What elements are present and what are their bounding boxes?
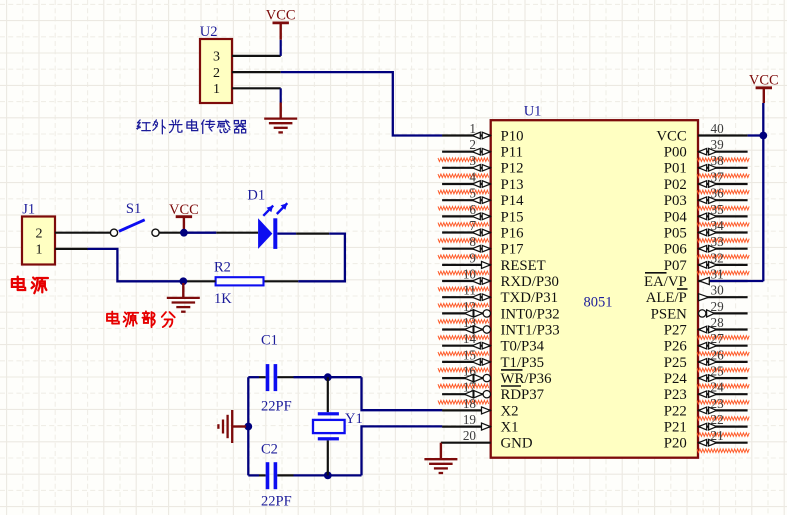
svg-text:P02: P02 (664, 177, 687, 193)
svg-text:RESET: RESET (501, 258, 546, 274)
svg-text:C2: C2 (261, 442, 278, 458)
svg-text:TXD/P31: TXD/P31 (501, 290, 559, 306)
svg-text:19: 19 (463, 412, 477, 427)
svg-text:VCC: VCC (749, 72, 779, 88)
svg-text:P24: P24 (664, 371, 688, 387)
svg-text:P00: P00 (664, 145, 687, 161)
svg-text:VCC: VCC (266, 7, 296, 23)
svg-text:P11: P11 (501, 145, 523, 161)
svg-text:2: 2 (36, 227, 43, 242)
svg-text:S1: S1 (126, 201, 141, 217)
svg-text:C1: C1 (261, 332, 278, 348)
svg-text:P27: P27 (664, 322, 687, 338)
svg-text:P20: P20 (664, 436, 687, 452)
svg-text:P04: P04 (664, 209, 688, 225)
svg-text:WR/P36: WR/P36 (501, 371, 552, 387)
svg-text:Y1: Y1 (345, 411, 363, 427)
svg-text:PSEN: PSEN (651, 306, 687, 322)
svg-text:40: 40 (711, 121, 725, 136)
svg-text:P13: P13 (501, 177, 524, 193)
svg-text:2: 2 (213, 66, 220, 81)
svg-text:RXD/P30: RXD/P30 (501, 274, 559, 290)
svg-text:14: 14 (463, 331, 477, 346)
svg-text:U2: U2 (200, 24, 218, 40)
svg-text:U1: U1 (524, 104, 542, 120)
svg-text:10: 10 (463, 266, 477, 281)
svg-text:INT1/P33: INT1/P33 (501, 322, 560, 338)
svg-text:D1: D1 (247, 188, 265, 204)
svg-text:R2: R2 (214, 259, 231, 275)
svg-text:VCC: VCC (656, 128, 687, 144)
svg-text:29: 29 (711, 299, 725, 314)
svg-text:P12: P12 (501, 161, 524, 177)
svg-text:P07: P07 (664, 258, 687, 274)
svg-text:P10: P10 (501, 128, 524, 144)
svg-text:18: 18 (463, 396, 477, 411)
svg-text:11: 11 (463, 283, 476, 298)
svg-text:31: 31 (711, 266, 724, 281)
svg-text:X2: X2 (501, 403, 519, 419)
svg-text:T1/P35: T1/P35 (501, 355, 545, 371)
svg-text:T0/P34: T0/P34 (501, 339, 545, 355)
svg-text:EA/VP: EA/VP (644, 274, 687, 290)
svg-text:GND: GND (501, 436, 533, 452)
svg-text:J1: J1 (22, 202, 35, 218)
svg-text:8051: 8051 (584, 295, 613, 311)
svg-text:9: 9 (469, 250, 476, 265)
svg-text:P05: P05 (664, 225, 687, 241)
svg-text:P26: P26 (664, 339, 687, 355)
svg-text:2: 2 (469, 137, 476, 152)
svg-text:P17: P17 (501, 242, 524, 258)
svg-text:P22: P22 (664, 403, 687, 419)
svg-text:P16: P16 (501, 225, 524, 241)
svg-text:1: 1 (213, 82, 220, 97)
svg-text:3: 3 (213, 50, 220, 65)
svg-text:RDP37: RDP37 (501, 387, 545, 403)
svg-text:P15: P15 (501, 209, 524, 225)
svg-text:1K: 1K (214, 291, 232, 307)
svg-text:X1: X1 (501, 420, 519, 436)
svg-text:1: 1 (469, 121, 476, 136)
svg-text:P14: P14 (501, 193, 525, 209)
svg-text:P21: P21 (664, 420, 687, 436)
svg-text:22PF: 22PF (261, 494, 292, 510)
svg-text:20: 20 (463, 428, 477, 443)
svg-text:15: 15 (463, 347, 477, 362)
svg-text:P23: P23 (664, 387, 687, 403)
svg-text:1: 1 (36, 243, 43, 258)
svg-text:P01: P01 (664, 161, 687, 177)
svg-text:30: 30 (711, 283, 725, 298)
svg-text:ALE/P: ALE/P (646, 290, 687, 306)
svg-text:INT0/P32: INT0/P32 (501, 306, 560, 322)
svg-text:P03: P03 (664, 193, 687, 209)
svg-text:P25: P25 (664, 355, 687, 371)
svg-text:P06: P06 (664, 242, 687, 258)
svg-text:22PF: 22PF (261, 399, 292, 415)
